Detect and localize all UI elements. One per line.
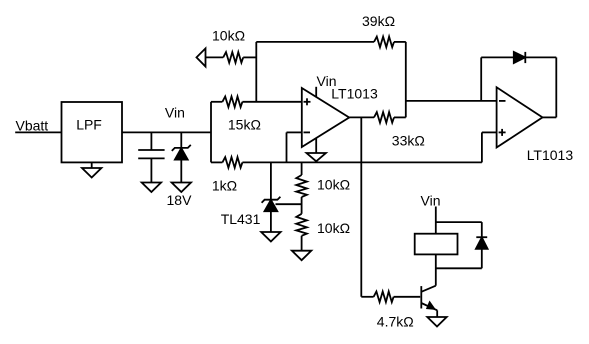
ground under TL431 xyxy=(261,232,280,242)
wire flyback top branch xyxy=(436,221,482,223)
transistor Q1 xyxy=(420,286,422,308)
wire Vbatt to LPF xyxy=(15,131,61,133)
resistor R 4.7k base xyxy=(361,296,373,298)
wire U2 non-inverting input xyxy=(481,132,483,162)
svg-text:10kΩ: 10kΩ xyxy=(317,220,350,236)
svg-text:18V: 18V xyxy=(167,192,193,208)
svg-text:4.7kΩ: 4.7kΩ xyxy=(377,314,414,330)
pin V+ Vin stub U1 xyxy=(315,87,317,98)
diode D2 feedback xyxy=(525,56,556,58)
resistor R 15k xyxy=(211,101,222,103)
wire port column vertical xyxy=(255,42,257,102)
port arrow input xyxy=(197,48,206,66)
resistor R 39k feedback xyxy=(256,41,374,43)
wire U1 output down to base resistor xyxy=(360,117,362,296)
svg-text:39kΩ: 39kΩ xyxy=(362,13,395,29)
svg-text:10kΩ: 10kΩ xyxy=(212,28,245,44)
ground under Q1 xyxy=(427,317,446,327)
wire U1 output xyxy=(349,116,374,118)
wire TL431 ref xyxy=(276,203,302,205)
svg-text:10kΩ: 10kΩ xyxy=(317,176,350,192)
wire flyback bottom branch xyxy=(436,267,482,269)
op-amp U2 LT1013 xyxy=(497,87,543,147)
svg-text:TL431: TL431 xyxy=(221,211,261,227)
shunt reference U3 TL431 xyxy=(270,162,272,199)
capacitor C1 xyxy=(150,132,152,150)
diode D3 flyback xyxy=(476,236,487,238)
resistor R 10k lower divider xyxy=(301,197,303,214)
wire U1 inverting input xyxy=(287,131,302,133)
block LPF xyxy=(62,102,123,162)
zener D1 18V xyxy=(180,132,182,148)
resistor R 33k xyxy=(374,112,394,123)
wire Vin to relay coil xyxy=(435,207,437,234)
svg-text:Vin: Vin xyxy=(165,104,185,120)
resistor R 10k (port) xyxy=(206,56,224,58)
ground under C1 xyxy=(142,183,161,193)
relay coil K1 xyxy=(415,234,458,255)
wire U2 inverting input xyxy=(406,100,497,102)
ground under U1 xyxy=(307,153,326,161)
ground under divider xyxy=(292,251,311,261)
op-amp U1 LT1013 xyxy=(302,88,349,147)
wire relay to Q1 collector xyxy=(435,254,437,285)
svg-text:LT1013: LT1013 xyxy=(331,85,378,101)
svg-text:LPF: LPF xyxy=(76,116,102,132)
wire feedback right vertical xyxy=(405,42,407,118)
svg-text:Vbatt: Vbatt xyxy=(16,118,49,134)
svg-text:1kΩ: 1kΩ xyxy=(212,178,237,194)
wire bottom net to op-amp2 + xyxy=(242,161,482,163)
resistor R 1k xyxy=(211,161,222,163)
svg-text:33kΩ: 33kΩ xyxy=(392,133,425,149)
pin V- ground stub U1 xyxy=(315,138,317,153)
ground under LPF xyxy=(91,162,93,168)
wire input bus vertical xyxy=(210,102,212,163)
ground under D1 xyxy=(172,183,191,193)
svg-text:15kΩ: 15kΩ xyxy=(228,117,261,133)
wire U2 output xyxy=(543,116,557,118)
wire LPF to Vin bus xyxy=(122,131,211,133)
svg-text:Vin: Vin xyxy=(421,193,441,209)
resistor R 10k upper divider xyxy=(301,162,303,175)
svg-text:LT1013: LT1013 xyxy=(527,147,574,163)
